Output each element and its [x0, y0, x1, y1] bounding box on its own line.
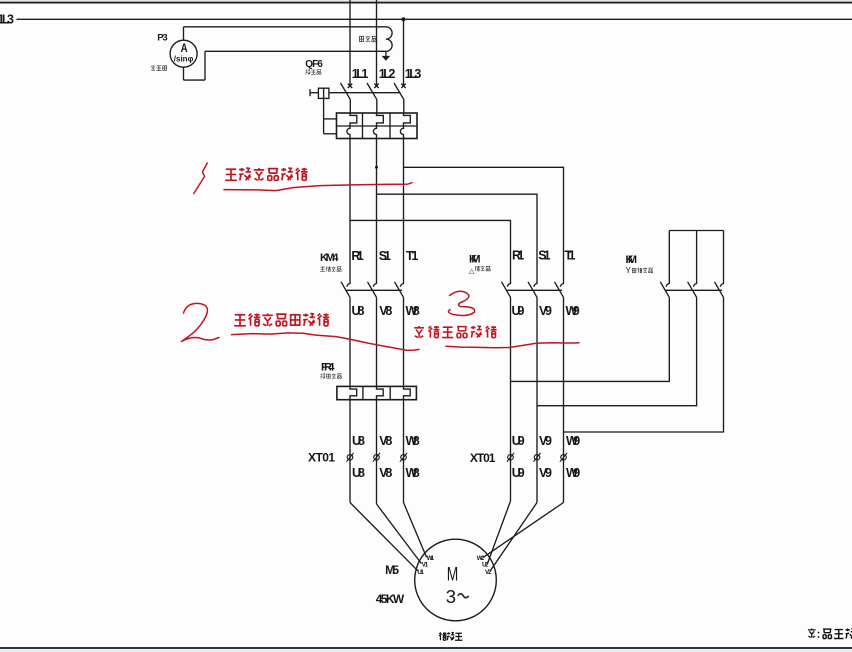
svg-text:1L2: 1L2: [379, 67, 396, 81]
svg-text:1L1: 1L1: [352, 67, 369, 81]
svg-text:KM: KM: [469, 254, 481, 266]
svg-text:V8: V8: [379, 466, 392, 480]
svg-text:S1: S1: [379, 249, 391, 263]
svg-text:U8: U8: [352, 304, 365, 318]
svg-text:1L3: 1L3: [405, 67, 422, 81]
svg-text:V9: V9: [539, 304, 552, 318]
svg-text:FR4: FR4: [321, 362, 335, 374]
svg-text:U1: U1: [417, 569, 424, 576]
svg-text:T1: T1: [406, 249, 418, 263]
svg-text:V9: V9: [539, 434, 552, 448]
svg-text:KM: KM: [626, 254, 638, 266]
svg-text:1L3: 1L3: [0, 13, 14, 27]
svg-text:U8: U8: [352, 434, 365, 448]
svg-text:Y: Y: [626, 266, 632, 275]
svg-text:W9: W9: [566, 434, 580, 448]
svg-text:M: M: [447, 563, 459, 585]
svg-text:△: △: [469, 268, 475, 275]
svg-text:U9: U9: [512, 304, 525, 318]
svg-text:QF6: QF6: [305, 59, 323, 70]
svg-text:R1: R1: [512, 249, 524, 263]
svg-text:R1: R1: [351, 249, 363, 263]
svg-text:W8: W8: [406, 466, 420, 480]
svg-text:V9: V9: [539, 466, 552, 480]
svg-text:P3: P3: [157, 33, 168, 44]
svg-text:W8: W8: [406, 304, 420, 318]
svg-text:XT01: XT01: [470, 451, 496, 465]
svg-text:KM4: KM4: [320, 252, 339, 264]
svg-text:A: A: [181, 43, 188, 55]
svg-text:S1: S1: [538, 249, 550, 263]
svg-text:W8: W8: [406, 434, 420, 448]
svg-text:3: 3: [446, 586, 456, 607]
svg-text:V2: V2: [485, 569, 492, 576]
svg-text:T1: T1: [565, 249, 576, 263]
svg-text:M5: M5: [385, 563, 399, 577]
svg-text:U9: U9: [512, 466, 525, 480]
svg-text:V1: V1: [422, 562, 429, 569]
svg-text:V8: V8: [379, 434, 392, 448]
svg-text:U2: U2: [482, 562, 489, 569]
svg-text:U8: U8: [352, 466, 365, 480]
svg-text:W9: W9: [566, 466, 580, 480]
svg-text:/sinφ: /sinφ: [174, 54, 194, 63]
svg-text:XT01: XT01: [308, 450, 335, 464]
svg-text:V8: V8: [379, 304, 392, 318]
svg-text:U9: U9: [512, 434, 525, 448]
svg-text:W9: W9: [566, 304, 580, 318]
svg-text:45KW: 45KW: [376, 592, 405, 606]
